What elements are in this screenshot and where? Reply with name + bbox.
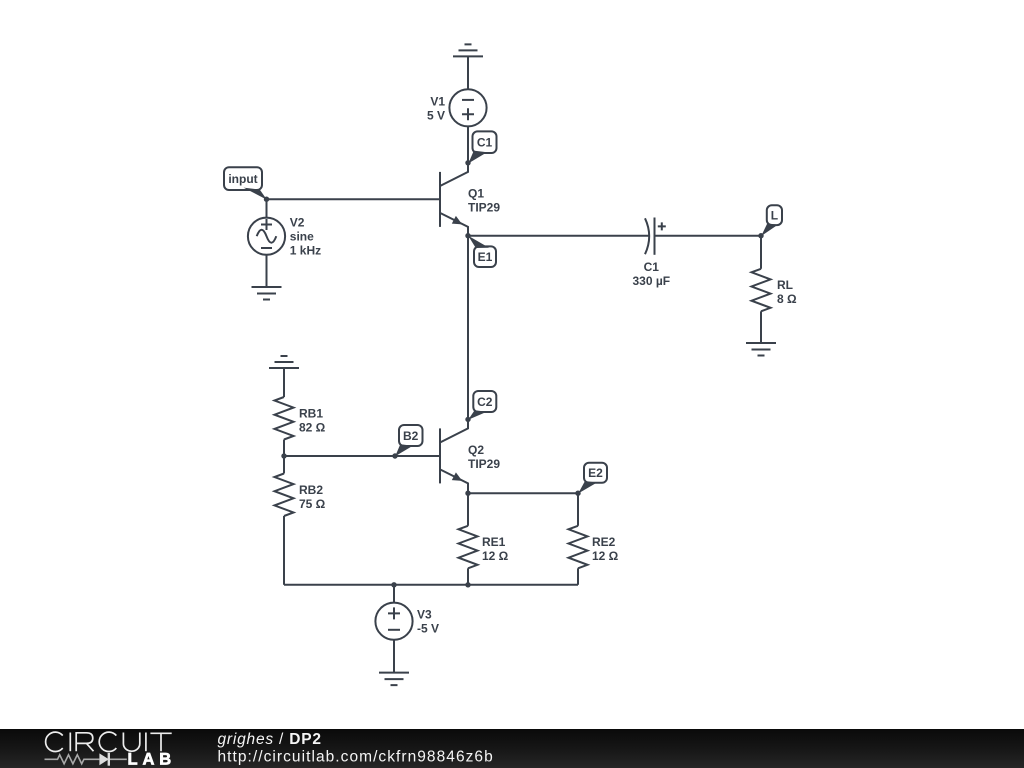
svg-text:330 µF: 330 µF xyxy=(632,274,670,288)
wire junction to Q2 base xyxy=(284,455,440,457)
ground (above RB1, flipped) xyxy=(269,356,299,368)
wire node E1 down to node C2 xyxy=(467,236,469,420)
svg-text:http://circuitlab.com/ckfrn988: http://circuitlab.com/ckfrn98846z6b xyxy=(218,748,494,765)
voltage source V3 xyxy=(375,603,412,640)
wire V2 to ground xyxy=(266,255,268,287)
svg-text:RE2: RE2 xyxy=(592,535,616,549)
svg-text:RL: RL xyxy=(777,278,793,292)
voltage source V1 xyxy=(449,89,486,126)
svg-text:5 V: 5 V xyxy=(427,109,445,123)
svg-text:V1: V1 xyxy=(430,95,445,109)
svg-text:V3: V3 xyxy=(417,608,432,622)
wire RL to ground xyxy=(760,311,762,343)
node B2 xyxy=(392,425,422,459)
ground (below V2) xyxy=(252,287,282,300)
wire V1 to node C1 xyxy=(467,126,469,162)
svg-text:RB2: RB2 xyxy=(299,483,323,497)
ground (top, flipped) xyxy=(453,44,483,56)
node C2 xyxy=(465,391,496,422)
logo CIRCUIT text xyxy=(46,732,172,751)
junction RE1/rail xyxy=(465,582,470,587)
node C1 xyxy=(465,131,496,165)
svg-text:input: input xyxy=(228,172,257,186)
svg-text:TIP29: TIP29 xyxy=(468,200,500,214)
wire RE1 to bottom rail xyxy=(467,568,469,585)
junction rail / V3 xyxy=(391,582,396,587)
resistor RE2 xyxy=(569,526,588,569)
junction RB1/RB2/base xyxy=(281,453,286,458)
wire node L to RL xyxy=(760,236,762,269)
svg-text:LAB: LAB xyxy=(128,750,177,768)
svg-text:RE1: RE1 xyxy=(482,535,506,549)
wire RB2 to bottom rail xyxy=(283,516,285,585)
wire ground to RB1 xyxy=(283,368,285,397)
node E1 xyxy=(465,233,496,267)
svg-text:8 Ω: 8 Ω xyxy=(777,292,797,306)
resistor RB2 xyxy=(275,474,294,517)
resistor RE1 xyxy=(459,526,478,569)
wire node E2 to RE2 xyxy=(577,493,579,526)
junction Q2 emitter / RE1 xyxy=(465,491,470,496)
svg-text:grighes / DP2: grighes / DP2 xyxy=(218,731,322,748)
svg-text:C2: C2 xyxy=(477,395,493,409)
svg-text:C1: C1 xyxy=(477,136,493,150)
transistor Q2 xyxy=(440,419,468,493)
svg-text:C1: C1 xyxy=(644,260,660,274)
transistor Q1 xyxy=(440,163,468,236)
svg-text:TIP29: TIP29 xyxy=(468,457,500,471)
footer bar xyxy=(0,729,1024,768)
wire input node to V2 xyxy=(266,199,268,217)
svg-text:E1: E1 xyxy=(478,250,493,264)
bottom rail wire xyxy=(284,584,578,586)
svg-text:12 Ω: 12 Ω xyxy=(482,549,509,563)
voltage source V2 (sine) xyxy=(248,218,285,255)
svg-text:B2: B2 xyxy=(403,429,419,443)
wire input node to Q1 base xyxy=(267,198,441,200)
node E2 xyxy=(575,463,607,496)
wire junction to RB2 xyxy=(283,456,285,474)
logo resistor-diode symbol xyxy=(45,755,127,764)
node L xyxy=(758,205,782,238)
svg-text:1 kHz: 1 kHz xyxy=(290,244,321,258)
svg-text:sine: sine xyxy=(290,230,314,244)
svg-text:12 Ω: 12 Ω xyxy=(592,549,619,563)
svg-text:-5 V: -5 V xyxy=(417,622,439,636)
wire Q2 emitter to E2 xyxy=(468,492,578,494)
resistor RB1 xyxy=(275,397,294,440)
wire V3 to ground xyxy=(393,640,395,673)
svg-text:Q2: Q2 xyxy=(468,443,484,457)
wire E junction to RE1 xyxy=(467,493,469,526)
wire RE2 to bottom rail xyxy=(577,568,579,585)
resistor RL xyxy=(752,269,771,312)
capacitor C1 xyxy=(645,218,666,255)
svg-text:Q1: Q1 xyxy=(468,186,484,200)
wire capacitor C1 to node L xyxy=(655,235,762,237)
svg-text:82 Ω: 82 Ω xyxy=(299,420,326,434)
ground (below RL) xyxy=(746,343,776,356)
wire node E1 to capacitor C1 xyxy=(468,235,649,237)
svg-text:V2: V2 xyxy=(290,216,305,230)
wire RB1 to junction xyxy=(283,440,285,457)
ground (below V3) xyxy=(379,673,409,686)
node input xyxy=(224,167,269,202)
svg-text:E2: E2 xyxy=(588,466,603,480)
svg-text:RB1: RB1 xyxy=(299,406,323,420)
svg-text:75 Ω: 75 Ω xyxy=(299,497,326,511)
svg-text:L: L xyxy=(771,208,778,222)
wire rail to V3 xyxy=(393,585,395,603)
wire ground to V1 xyxy=(467,56,469,89)
